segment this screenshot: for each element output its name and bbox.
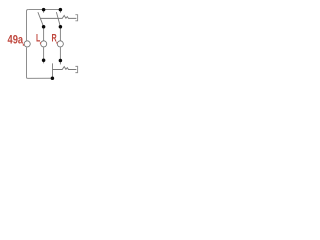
wire: left vertical below terminal 49a down to bottom-left corner: [27, 47, 28, 78]
junction dot bottom rail: [51, 76, 55, 80]
switch blade right (to terminal R): [56, 12, 60, 27]
terminal L circle: [41, 41, 47, 47]
wire: common lower contact vertical: [52, 63, 54, 78]
wire: below terminal R circle to lower dot and open stub: [59, 47, 61, 64]
junction dot lower L stub: [42, 58, 46, 62]
junction dot lower R stub: [59, 59, 63, 63]
switch blade left (to terminal L): [38, 12, 44, 27]
wire: terminal R column between junction dot and circle: [59, 27, 61, 41]
wire: lower output with squiggle to connector, row 69: [53, 67, 77, 70]
junction dot blade/terminal R: [59, 25, 63, 29]
svg-text:49a: 49a: [8, 33, 24, 47]
wire: bottom rail row 78 to junction dot: [28, 77, 53, 79]
junction dot blade/terminal L: [42, 25, 46, 29]
background: [0, 0, 88, 88]
label tick after 49a: [23, 44, 24, 46]
label tick after L: [40, 42, 41, 44]
wire: upper output with squiggle to connector, row 18: [40, 16, 76, 19]
connector bracket bottom right: [75, 66, 77, 72]
connector bracket top right: [75, 15, 77, 21]
wire: below terminal L circle to lower dot and open stub: [43, 47, 45, 63]
junction dot on top rail right: [59, 8, 63, 12]
terminal R circle: [57, 41, 63, 47]
node: fixed contact stub below right top dot: [59, 10, 61, 13]
wire: top rail row 9 feeding fixed contacts: [28, 9, 60, 11]
wire: left vertical from terminal 49a up to top-left corner: [27, 10, 29, 41]
terminal 49a circle: [24, 41, 30, 47]
label tick after R: [56, 42, 57, 44]
svg-text:L: L: [36, 32, 40, 44]
node: fixed contact stub below left top dot: [43, 10, 45, 13]
svg-text:R: R: [52, 32, 57, 44]
junction dot on top rail left: [42, 8, 46, 12]
wire: terminal L column between junction dot and circle: [43, 27, 45, 41]
